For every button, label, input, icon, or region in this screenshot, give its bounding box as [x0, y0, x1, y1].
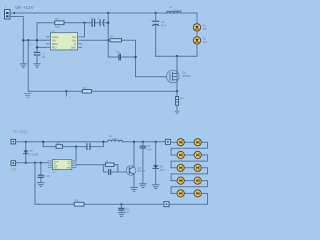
capacitor C6: [87, 144, 90, 150]
node junction on pin2 line: [22, 39, 24, 41]
svg-text:D5: D5: [29, 149, 33, 153]
wire drop to ground rail: [27, 40, 29, 91]
wire rail corner to LED D1: [181, 13, 197, 23]
svg-text:G: G: [69, 96, 71, 99]
svg-text:RtCt: RtCt: [53, 167, 57, 170]
svg-text:1N4148: 1N4148: [29, 152, 39, 156]
wire to Q2 base: [118, 171, 127, 173]
LED matrix row3 right: [194, 164, 201, 171]
svg-text:15V: 15V: [160, 168, 165, 172]
ground (C10): [38, 183, 45, 187]
wire C4 line: [108, 56, 135, 58]
svg-text:R5: R5: [75, 199, 79, 203]
capacitor C7 (speedup): [109, 170, 111, 175]
node junction source/ground-rail: [176, 90, 178, 92]
svg-text:Vin high: Vin high: [13, 129, 29, 134]
LED matrix row4 right: [194, 177, 201, 184]
LED D2: [193, 37, 207, 45]
wire D2 down and bottom return: [156, 45, 197, 57]
wire connector pin2 to ground drop: [10, 17, 23, 64]
svg-text:Comp: Comp: [52, 37, 59, 39]
svg-text:BC337: BC337: [137, 169, 145, 173]
LED matrix row5 left: [177, 190, 184, 197]
wire feedback line A riser: [42, 142, 44, 147]
inductor L2: [108, 134, 123, 142]
wire R2 line (pin2R to gate riser): [82, 39, 136, 41]
wire +12V rail: [10, 12, 197, 14]
wire C1 to ground: [36, 55, 38, 63]
svg-text:3W: 3W: [203, 40, 208, 44]
matrix serpentine wires: [169, 142, 208, 204]
LED matrix row1 right: [194, 139, 201, 146]
svg-text:Ct: Ct: [74, 43, 77, 46]
svg-text:IRF540: IRF540: [182, 74, 191, 78]
wire row1: [169, 142, 208, 204]
svg-text:Vin +12V: Vin +12V: [15, 5, 35, 10]
terminal T2: [11, 161, 16, 166]
wire D1-D2: [196, 32, 198, 37]
svg-text:+: +: [149, 18, 151, 22]
node junction R1 line / pin1R riser: [83, 22, 85, 24]
ground (Q2 emitter): [131, 187, 138, 191]
LED matrix row2 right: [194, 151, 201, 158]
capacitor C5 (input electrolytic on x=155.7): [149, 12, 166, 56]
wire base network lower branch: [103, 165, 117, 172]
resistor R2: [110, 39, 122, 42]
svg-text:10k: 10k: [55, 25, 60, 29]
wire source down: [176, 83, 178, 97]
svg-text:3W: 3W: [203, 27, 208, 31]
zener D5 branch: [23, 141, 38, 164]
svg-text:U2: U2: [52, 170, 56, 174]
inductor L1: [167, 5, 182, 13]
resistor R5 (series): [74, 202, 84, 206]
LED D1: [193, 24, 207, 32]
LED matrix row1 left: [177, 139, 184, 146]
wire gate riser: [136, 40, 167, 77]
svg-text:C10: C10: [44, 174, 50, 178]
ground (C9): [118, 213, 125, 217]
svg-text:uF: uF: [42, 55, 46, 59]
svg-text:GND: GND: [67, 168, 72, 170]
svg-text:GND: GND: [71, 47, 76, 49]
capacitor C9 branch: [119, 203, 130, 214]
node junction pin2/ground-rail drop: [27, 39, 29, 41]
wire feedback line A: [43, 146, 103, 148]
resistor R3 (series in ground rail): [82, 90, 91, 93]
node A (matrix feed terminal): [165, 139, 170, 144]
diode D6 branch: [153, 141, 165, 185]
svg-text:Out: Out: [72, 36, 76, 39]
svg-text:C4: C4: [116, 50, 120, 54]
ground (below T2, faint): [12, 168, 17, 170]
svg-text:4u7: 4u7: [161, 24, 166, 28]
wire IC1 pin2 (GND line): [23, 39, 50, 41]
wire collector riser: [133, 142, 135, 167]
MOSFET Q1: [167, 70, 192, 83]
capacitor C2: [92, 19, 95, 26]
svg-text:U1: U1: [51, 29, 55, 33]
svg-text:R4: R4: [180, 97, 184, 101]
ground rail (top circuit): [28, 90, 177, 92]
LED matrix row5 right: [194, 190, 201, 197]
wire base network upper branch: [103, 164, 117, 166]
resistor R7: [105, 163, 114, 166]
svg-text:RtCt: RtCt: [52, 46, 57, 49]
ground (source sense, arrow style): [174, 111, 180, 115]
wire riser to IC1 pin1R: [82, 23, 85, 37]
svg-text:10k: 10k: [56, 141, 61, 145]
wire emitter to ground: [133, 174, 135, 187]
svg-text:100n: 100n: [147, 147, 153, 151]
ground (rail end marker): [24, 93, 31, 97]
LED matrix row2 left: [177, 151, 184, 158]
ground (D6): [152, 185, 159, 189]
capacitor C8 (rail filter): [140, 141, 153, 184]
ground (connector return): [20, 64, 26, 68]
svg-text:330u: 330u: [112, 138, 118, 141]
IC U2: [48, 160, 76, 175]
wire bottom top rail: [16, 141, 166, 143]
wire riser x108 rail to C4 line: [107, 13, 109, 57]
svg-text:10n: 10n: [125, 210, 130, 214]
ground (C1): [34, 64, 40, 68]
node junction C1 top: [36, 39, 38, 41]
node junction drain/bottom return: [176, 55, 178, 57]
svg-text:RtDis: RtDis: [52, 43, 58, 46]
node junction ground-rail stub: [65, 90, 67, 92]
terminal T1: [11, 139, 16, 144]
svg-text:100uH: 100uH: [174, 8, 182, 12]
wire IC2 pin to base network: [76, 164, 103, 166]
connector J1: [5, 5, 11, 19]
transistor Q2: [126, 166, 146, 176]
wire C10 branch riser: [40, 163, 42, 183]
LED matrix row4 left: [177, 177, 184, 184]
IC U1: [47, 29, 82, 50]
node junction rail/x108 riser: [107, 12, 109, 14]
svg-text:R2: R2: [110, 34, 114, 38]
capacitor C1: [34, 52, 40, 55]
ground (C8): [140, 184, 147, 188]
svg-text:R1: R1: [55, 17, 59, 21]
svg-text:R3: R3: [83, 86, 87, 90]
wire drain riser: [176, 56, 178, 71]
capacitor C10: [38, 175, 43, 177]
resistor R1: [55, 21, 64, 25]
svg-text:L1: L1: [169, 5, 173, 9]
wire bottom return rail: [35, 163, 164, 205]
wire R1 top line: [37, 23, 108, 52]
wire line A right riser to rail: [102, 142, 104, 147]
resistor R6: [56, 145, 63, 149]
LED matrix row3 left: [177, 164, 184, 171]
svg-text:C2: C2: [91, 16, 95, 20]
capacitor C3 (polarized): [100, 20, 104, 26]
svg-text:C1: C1: [29, 43, 33, 47]
wire T2 line to IC2: [16, 162, 49, 164]
wire IC1 pin4 stub: [37, 46, 51, 48]
node junction line A / pin riser: [75, 145, 77, 147]
wire R4 to ground: [176, 105, 178, 110]
capacitor C4: [119, 54, 121, 60]
node B (matrix return terminal): [164, 202, 169, 207]
wire stub below ground rail: [65, 91, 67, 96]
resistor R4 (sense): [176, 97, 185, 106]
wire riser line A to IC2 pin: [75, 147, 77, 161]
